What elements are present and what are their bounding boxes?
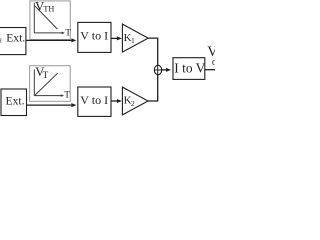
svg-text:V to I: V to I [80,93,108,107]
svg-text:o: o [212,57,215,68]
wire Ext-top to V-to-I top [26,39,72,41]
svg-text:Ext.: Ext. [6,32,25,45]
wire V-to-I bottom to K2 [111,100,118,102]
horizontal axis with arrowhead [34,32,62,34]
graph box V_TH vs T (top, decreasing characteristic) [30,0,71,39]
horizontal axis with arrowhead [34,95,61,97]
box Ext top (external V_TH input, clipped at left image edge) [0,28,26,55]
amplifier K1 [122,24,148,52]
wire K2 to summing junction [148,75,158,102]
svg-text:2: 2 [131,99,135,108]
box V to I (bottom) [78,87,111,116]
box V to I (top) [78,22,111,52]
wire Ext-bottom to V-to-I bottom [27,104,73,106]
svg-text:T: T [65,28,71,38]
vertical axis [33,69,35,95]
svg-text:V to I: V to I [80,29,108,43]
wire K1 to summing junction [148,38,158,66]
svg-text:I to V: I to V [174,61,205,76]
svg-text:T: T [43,71,49,81]
svg-text:Ext.: Ext. [6,95,25,108]
wire output [205,69,215,71]
wire V-to-I top to K1 [111,37,118,39]
box Ext bottom (external input) [1,89,27,116]
svg-text:1: 1 [131,36,135,45]
vertical axis [33,3,35,33]
svg-text:TH: TH [43,5,54,14]
increasing line [35,73,58,95]
box I to V [173,58,206,80]
wire summing junction to I-to-V [162,69,167,71]
decreasing line [35,6,58,29]
amplifier K2 [122,87,148,115]
summing junction (circle with plus) [154,65,161,74]
graph box V_T vs T (bottom, increasing characteristic) [30,64,71,101]
svg-text:T: T [64,91,70,101]
